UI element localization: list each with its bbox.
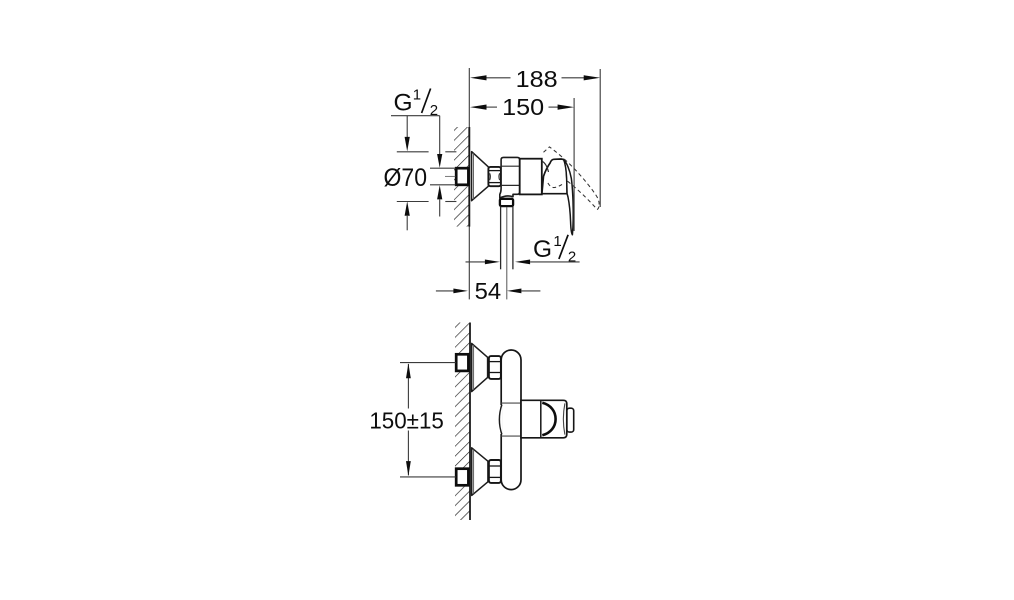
mixer body capsule (front view) — [501, 350, 521, 490]
handle end cap (front view) — [567, 408, 574, 432]
svg-text:188: 188 — [516, 66, 558, 92]
open lever position, dashed upper edge (side view) — [544, 147, 600, 206]
mixer body (side view) — [520, 159, 542, 195]
label G 1/2 (upper left) — [391, 87, 440, 120]
closed lever blade (side view) — [564, 159, 574, 234]
svg-text:1: 1 — [413, 87, 421, 104]
svg-text:1: 1 — [553, 233, 561, 250]
bottom union fitting (front view) — [400, 469, 468, 486]
svg-text:54: 54 — [475, 278, 502, 304]
wall surface line (front view) — [469, 323, 471, 521]
top union fitting (front view) — [400, 354, 468, 371]
wall hatch (side view) — [454, 127, 469, 227]
hex connection nut (side view) — [488, 167, 501, 186]
extension line right of 150 — [573, 98, 575, 231]
extension line right of 188 — [599, 69, 601, 207]
wall hatch (front view) — [455, 323, 470, 521]
cartridge band lines (front view) — [501, 403, 521, 436]
dimension 54 — [436, 278, 541, 304]
knob face arc (front view) — [563, 403, 565, 434]
svg-text:G: G — [533, 236, 552, 263]
outlet pipe lines (side view) — [501, 207, 513, 270]
label G 1/2 (lower, hose outlet) — [533, 233, 576, 266]
handle stem and knob (front view) — [521, 400, 567, 438]
svg-text:2: 2 — [430, 102, 438, 119]
leader arrows for outlet G1/2 — [466, 260, 580, 265]
dimension 150 +/- 15 — [369, 363, 444, 476]
top hex nut (front view) — [489, 356, 501, 379]
svg-text:150: 150 — [502, 94, 544, 120]
outlet centerline — [506, 207, 508, 299]
bottom escutcheon cone (front view) — [472, 448, 488, 496]
svg-text:150±15: 150±15 — [369, 408, 444, 434]
concealed G1/2 union fitting (side view) — [430, 168, 468, 185]
open lever position, dashed lower hook (side view) — [548, 183, 563, 188]
knob dome arc (front view) — [542, 403, 555, 436]
cartridge bulge on left edge (front view) — [499, 405, 502, 435]
wall surface line (side view) — [468, 68, 470, 299]
escutcheon cone (side view) — [472, 152, 489, 201]
top escutcheon cone (front view) — [472, 343, 488, 391]
dimension leader for G1/2 fitting (x=439.7) — [437, 116, 442, 217]
open lever position, dashed lower edge to tip (side view) — [568, 181, 599, 209]
dimension 188 — [470, 66, 600, 92]
svg-text:G: G — [394, 89, 413, 116]
svg-text:2: 2 — [568, 249, 576, 266]
dimension leader for escutcheon dia (x=407) — [405, 116, 410, 231]
svg-text:Ø70: Ø70 — [384, 164, 428, 192]
dimension 150 — [470, 94, 574, 120]
valve flange with outlet stub (side view) — [500, 157, 520, 198]
bottom hex nut (front view) — [489, 460, 501, 483]
handle dome (side view) — [542, 159, 567, 194]
dome-body intersection curve (side view) — [542, 161, 549, 172]
outlet swivel nut (side view) — [500, 199, 513, 206]
extension lines for cone dia — [397, 152, 457, 202]
